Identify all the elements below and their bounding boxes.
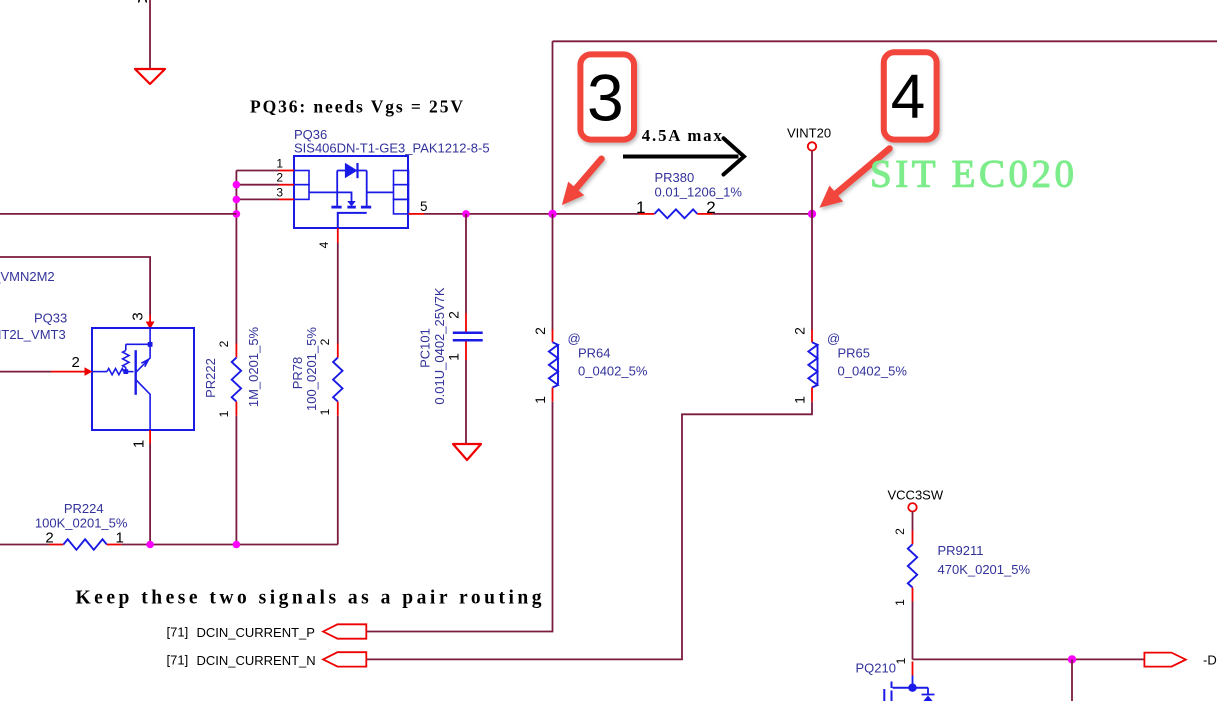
wire rail right [121, 544, 337, 546]
svg-text:0_0402_5%: 0_0402_5% [838, 364, 908, 379]
resistor PR78 pin2 stub [337, 344, 339, 358]
SECTION: annotations [562, 52, 1074, 208]
svg-text:VINT20: VINT20 [787, 126, 831, 141]
callout arrow 4 [820, 149, 890, 208]
svg-text:2: 2 [72, 354, 80, 371]
pin box right 3 [394, 199, 409, 214]
mosfet drain rail [337, 171, 367, 206]
svg-text:1: 1 [893, 599, 907, 606]
callout box 3 [580, 54, 634, 139]
wire pin4 down [337, 243, 339, 344]
svg-text:0.01_1206_1%: 0.01_1206_1% [655, 185, 743, 200]
junction rail PQ33 [146, 541, 154, 549]
node dot base [123, 369, 128, 374]
svg-text:2: 2 [217, 340, 231, 347]
resistor PR222 pin1 stub [235, 402, 237, 416]
wire pin1 to bus [236, 170, 279, 172]
emitter top link [126, 328, 150, 350]
pin 5 stub [409, 213, 425, 215]
wire pin5 to node3 [424, 213, 639, 215]
pin box right 1 [394, 171, 409, 185]
transistor PQ210 drain bar [893, 687, 929, 689]
wire node3 to PR64 [552, 214, 554, 330]
resistor PR222 pin2 stub [235, 344, 237, 358]
pin 4 stub [337, 228, 339, 243]
svg-text:3: 3 [130, 312, 147, 320]
svg-text:5: 5 [420, 199, 428, 214]
svg-text:-DC: -DC [1203, 653, 1217, 668]
wire PR380 to node4 [713, 213, 812, 215]
svg-text:4: 4 [891, 63, 925, 132]
svg-text:@: @ [827, 331, 840, 346]
svg-text:1: 1 [131, 440, 148, 448]
wire top drop [552, 41, 554, 214]
svg-text:[71]: [71] [167, 625, 189, 640]
transistor bar [134, 350, 136, 395]
power port VINT20 circle [808, 142, 816, 150]
wire top to pin3 [0, 257, 150, 315]
wire vertical gate bus [235, 171, 237, 344]
svg-text:L_VMN2M2: L_VMN2M2 [0, 269, 55, 284]
wire PR65 to connector N [366, 402, 812, 660]
transistor PQ210 pin1 stub [912, 662, 914, 676]
svg-text:PQ36: needs Vgs = 25V: PQ36: needs Vgs = 25V [250, 97, 463, 117]
wire VINT20 down [811, 151, 813, 214]
substrate arrow [347, 201, 355, 207]
resistor PR222 body [232, 358, 241, 402]
junction rail PR222 [233, 541, 241, 549]
resistor PR380 body [654, 209, 697, 218]
resistor PR224 pin2 stub [49, 544, 64, 546]
pin 1 stub [149, 430, 151, 444]
transistor PQ210 drain dot [908, 684, 916, 692]
svg-text:PR380: PR380 [655, 170, 695, 185]
pin 2 stub [279, 184, 294, 186]
svg-text:DCIN_CURRENT_P: DCIN_CURRENT_P [197, 625, 315, 640]
svg-text:PR224: PR224 [64, 501, 104, 516]
resistor PR224 pin1 stub [107, 544, 122, 546]
SECTION: sense resistors and connectors [76, 214, 908, 668]
junction main bus [233, 210, 241, 218]
wire PR222 to rail [235, 416, 237, 545]
svg-text:2: 2 [446, 311, 462, 319]
SECTION: PQ36 block [233, 97, 490, 344]
pin 1 stub [279, 170, 294, 172]
callout arrow 3 [562, 159, 602, 205]
svg-text:SIS406DN-T1-GE3_PAK1212-8-5: SIS406DN-T1-GE3_PAK1212-8-5 [294, 141, 490, 156]
svg-text:1: 1 [894, 657, 908, 664]
channel pad right [361, 206, 371, 209]
transistor PQ210 gate bar [883, 689, 885, 701]
resistor PR64 body [549, 342, 558, 387]
svg-text:VCC3SW: VCC3SW [888, 488, 944, 503]
resistor PR9211 body [908, 544, 917, 587]
transistor PQ36 body [294, 156, 408, 228]
svg-text:DCIN_CURRENT_N: DCIN_CURRENT_N [197, 653, 316, 668]
resistor PR224 body [63, 539, 106, 550]
ground [135, 69, 165, 84]
svg-text:Keep these two signals as a pa: Keep these two signals as a pair routing [76, 588, 542, 609]
svg-text:3: 3 [276, 185, 283, 199]
clipped symbol top edge [139, 0, 146, 2]
resistor PR65 body [808, 342, 817, 387]
SECTION: main horizontal net [0, 41, 1217, 544]
node 3 junction [548, 210, 556, 218]
svg-text:PR9211: PR9211 [938, 543, 984, 558]
wire PR78 to rail [337, 416, 339, 545]
current arrow shaft [623, 155, 739, 159]
wire node to output [913, 658, 1145, 660]
junction PC101 tap [462, 210, 470, 218]
svg-text:100_0201_5%: 100_0201_5% [304, 327, 319, 411]
wire tap down [1071, 659, 1073, 701]
pin box left 2 [294, 185, 309, 200]
svg-text:2: 2 [318, 338, 332, 345]
pin 2 wire [0, 371, 51, 373]
junction output tap [1068, 655, 1076, 663]
svg-text:PQ33: PQ33 [34, 311, 67, 326]
junction pin2 bus [233, 181, 241, 189]
svg-text:2: 2 [893, 528, 907, 535]
pin 3 stub [279, 198, 294, 200]
wire VCC3SW to PR9211 [912, 512, 914, 531]
svg-text:1: 1 [318, 408, 332, 415]
off-page connector DCIN_CURRENT_P [323, 624, 366, 638]
wire rail left [0, 544, 49, 546]
SECTION: top-left ground net [135, 0, 165, 84]
gate plate [338, 213, 367, 228]
gate link wire [309, 192, 352, 201]
svg-text:2: 2 [792, 327, 808, 335]
svg-text:4: 4 [317, 241, 331, 248]
svg-text:[71]: [71] [167, 652, 189, 667]
resistor PR65 pin1 stub [811, 388, 813, 402]
transistor PQ210 drain wire [912, 676, 914, 688]
resistor PR78 pin1 stub [337, 402, 339, 416]
svg-text:SIT EC020: SIT EC020 [870, 153, 1074, 196]
right link wire [367, 191, 394, 193]
svg-text:PR78: PR78 [290, 357, 305, 390]
emitter arrowhead [141, 359, 148, 366]
wire pin2 to bus [236, 184, 279, 186]
svg-text:PR64: PR64 [578, 346, 611, 361]
junction pin3 bus [233, 196, 241, 204]
base-emitter resistor [123, 350, 129, 367]
svg-text:1: 1 [446, 353, 462, 361]
svg-text:@: @ [568, 331, 581, 346]
body diode [345, 163, 358, 179]
capacitor PC101 bottom wire [465, 360, 467, 444]
off-page connector right [1144, 653, 1185, 667]
base link [124, 371, 134, 373]
capacitor PC101 plate bottom [453, 339, 483, 342]
pin box right 2 [394, 185, 409, 200]
pin 3 stub [149, 315, 151, 323]
node dot emitter [148, 342, 153, 347]
wire PR9211 to node [912, 602, 914, 660]
svg-text:PQ210: PQ210 [856, 661, 896, 676]
resistor to base link [125, 367, 127, 371]
wire top rail [553, 40, 1217, 42]
pin 3 arrow [146, 322, 155, 330]
svg-text:3: 3 [587, 61, 624, 135]
resistor PR64 pin2 stub [552, 329, 554, 342]
svg-text:PC101: PC101 [418, 328, 433, 368]
wire pin1 to rail [149, 444, 151, 545]
svg-text:470K_0201_5%: 470K_0201_5% [938, 562, 1031, 577]
base series resistor [92, 371, 107, 373]
capacitor PC101 pin2 stub [465, 313, 467, 332]
svg-text:4.5A max: 4.5A max [642, 126, 723, 145]
svg-text:1M_0201_5%: 1M_0201_5% [246, 326, 261, 407]
pin 2 arrow [85, 367, 93, 376]
power port VCC3SW circle [908, 503, 916, 511]
svg-text:0_0402_5%: 0_0402_5% [578, 364, 648, 379]
SECTION: VCC3SW / PQ210 [856, 488, 1217, 701]
svg-text:2: 2 [532, 327, 548, 335]
transistor PQ210 body diode [922, 688, 935, 695]
wire left bus segment [0, 213, 236, 215]
wire node4 to PR65 [811, 214, 813, 330]
capacitor PC101 plate top [453, 332, 483, 335]
collector diagonal [136, 380, 150, 431]
node 4 junction [808, 210, 816, 218]
svg-text:100K_0201_5%: 100K_0201_5% [35, 516, 128, 531]
svg-text:1: 1 [276, 157, 283, 171]
svg-text:0.01U_0402_25V7K: 0.01U_0402_25V7K [432, 287, 447, 404]
ground below PC101 [453, 444, 481, 460]
svg-text:1: 1 [532, 396, 548, 404]
capacitor PC101 pin1 stub [465, 342, 467, 361]
capacitor PC101 top wire [465, 214, 467, 313]
SECTION: bottom rail [0, 501, 338, 550]
pin box left 1 [294, 171, 309, 185]
channel pad mid [347, 206, 355, 209]
svg-text:NT2L_VMT3: NT2L_VMT3 [0, 327, 66, 342]
resistor PR380 pin2 stub [697, 213, 713, 215]
wire PR64 to connector P [366, 402, 552, 632]
svg-text:PR65: PR65 [838, 346, 871, 361]
resistor PR65 pin2 stub [811, 329, 813, 342]
emitter diagonal [136, 347, 150, 373]
channel pad left [331, 206, 341, 209]
wire to ground [149, 0, 151, 69]
callout box 4 [884, 52, 937, 139]
svg-text:PR222: PR222 [203, 358, 218, 398]
SECTION: PQ33 block [0, 257, 194, 545]
resistor PR9211 pin2 stub [912, 531, 914, 545]
transistor PQ210 channel dashes [891, 682, 893, 701]
current arrow head [724, 138, 745, 174]
pin 2 stub [51, 371, 85, 373]
svg-text:1: 1 [792, 396, 808, 404]
wire pin3 to bus [236, 198, 279, 200]
body diode cathode bar [356, 163, 358, 178]
transistor PQ33 body [92, 328, 194, 430]
resistor PR64 pin1 stub [552, 388, 554, 402]
resistor PR380 pin1 stub [639, 213, 654, 215]
resistor PR78 body [333, 358, 342, 402]
svg-text:1: 1 [217, 410, 231, 417]
off-page connector DCIN_CURRENT_N [323, 652, 366, 666]
svg-text:2: 2 [276, 171, 283, 185]
resistor PR9211 pin1 stub [912, 588, 914, 602]
